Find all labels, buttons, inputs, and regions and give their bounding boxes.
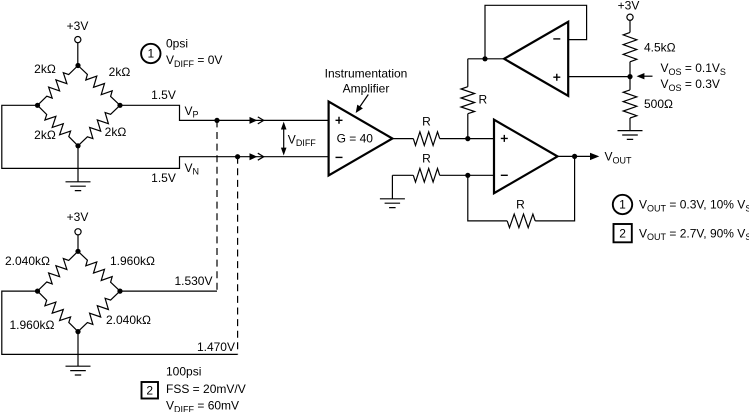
- resistor R2 2k ohm (bridge1 top-right): [78, 65, 130, 105]
- resistor 500 ohm: [623, 77, 673, 131]
- svg-text:100psi: 100psi: [166, 365, 201, 379]
- node: bridge2 top node: [75, 249, 80, 254]
- svg-text:Instrumentation: Instrumentation: [325, 67, 408, 81]
- wire VP: bridge1 right node to in-amp + input: [120, 105, 329, 120]
- resistor R3 2k ohm (bridge1 bottom-left): [34, 105, 78, 146]
- svg-text:1.470V: 1.470V: [197, 340, 235, 354]
- svg-text:FSS = 20mV/V: FSS = 20mV/V: [166, 382, 246, 396]
- svg-text:4.5kΩ: 4.5kΩ: [644, 41, 676, 55]
- node: bridge2 right node: [117, 289, 122, 294]
- svg-text:+3V: +3V: [618, 0, 640, 13]
- svg-text:1: 1: [147, 47, 154, 61]
- svg-text:2: 2: [146, 383, 153, 397]
- VDIFF measurement arrow: [281, 122, 287, 156]
- svg-text:1: 1: [619, 198, 626, 212]
- wire VN: bridge1 left node around bottom to in-amp - input: [2, 105, 329, 168]
- arrow on VP line: [250, 117, 264, 124]
- junction: divider tap node: [627, 74, 632, 79]
- svg-text:2: 2: [619, 226, 626, 240]
- resistor R1 2k ohm (bridge1 top-left): [34, 62, 78, 105]
- power terminal +3V (divider): [618, 0, 640, 32]
- op-amp U3 (buffer, points left): [504, 22, 568, 96]
- resistor 1.960k ohm (bridge2 bottom-left): [10, 291, 79, 332]
- svg-text:+3V: +3V: [67, 19, 89, 33]
- wire: ground to U2 - input with resistor R: [392, 169, 494, 183]
- svg-text:2kΩ: 2kΩ: [34, 128, 56, 142]
- node: bridge1 bottom node: [75, 143, 80, 148]
- svg-text:1.5V: 1.5V: [151, 88, 176, 102]
- op-amp U1 instrumentation amplifier: [329, 102, 393, 176]
- pointer arrow to U1: [356, 95, 369, 114]
- node: bridge2 bottom node: [75, 329, 80, 334]
- junction: U2 output node: [572, 154, 577, 159]
- feedback wire with resistor R (U2): [468, 156, 575, 227]
- resistor 2.040k ohm (bridge2 top-left): [5, 251, 78, 291]
- svg-text:2.040kΩ: 2.040kΩ: [106, 313, 151, 327]
- svg-text:R: R: [516, 197, 525, 211]
- power terminal +3V (bottom bridge): [67, 210, 89, 251]
- wire U3 + input to divider tap: [568, 76, 630, 78]
- arrow VOUT: [590, 153, 599, 160]
- legend marker circle 1 (VOUT 0.3V): [613, 195, 632, 214]
- svg-text:2kΩ: 2kΩ: [34, 62, 56, 76]
- label Instrumentation Amplifier: [325, 67, 408, 96]
- wire 1.470V output (around bottom): [2, 291, 238, 354]
- feedback loop wire (U3 output to - input): [485, 5, 587, 59]
- junction on VN line: [235, 154, 240, 159]
- wire U2 output: [558, 155, 591, 157]
- ground (top bridge): [66, 146, 91, 191]
- svg-text:1.5V: 1.5V: [151, 171, 176, 185]
- svg-text:G = 40: G = 40: [337, 132, 374, 146]
- resistor R4 2k ohm (bridge1 bottom-right): [78, 105, 126, 146]
- junction: + input node of U2: [465, 136, 470, 141]
- op-amp U2 (output stage): [494, 120, 558, 194]
- wire U3 output to vertical R: [468, 58, 504, 60]
- svg-text:R: R: [422, 115, 431, 129]
- ground (divider): [618, 131, 643, 140]
- dashed wire VP to 1.530V: [216, 120, 218, 291]
- wire: U1 output to U2 + input with resistor R: [392, 132, 494, 146]
- svg-text:2kΩ: 2kΩ: [109, 65, 131, 79]
- junction: - input node of U2: [465, 173, 470, 178]
- ground (bottom bridge): [66, 332, 91, 375]
- svg-text:2.040kΩ: 2.040kΩ: [5, 254, 50, 268]
- svg-text:Amplifier: Amplifier: [343, 82, 390, 96]
- junction on VP line: [214, 118, 219, 123]
- svg-text:1.960kΩ: 1.960kΩ: [10, 318, 55, 332]
- svg-text:1.960kΩ: 1.960kΩ: [110, 254, 155, 268]
- legend marker square 2 (100psi): [142, 382, 159, 399]
- wire 1.530V output: [120, 290, 217, 292]
- node: bridge1 right node: [117, 103, 122, 108]
- junction: U3 output node: [482, 56, 487, 61]
- node: bridge2 left node: [35, 289, 40, 294]
- svg-text:0psi: 0psi: [166, 37, 188, 51]
- resistor 4.5k ohm: [623, 32, 675, 76]
- svg-text:R: R: [422, 152, 431, 166]
- pointer arrow to tap node: [637, 73, 653, 79]
- legend marker circle 1 (0psi): [141, 44, 160, 63]
- ground (U2 - input branch): [380, 175, 405, 207]
- dashed wire VN to 1.470V: [237, 157, 239, 355]
- resistor R vertical (buffer output to + node): [461, 59, 475, 139]
- legend marker square 2 (VOUT 2.7V): [614, 224, 632, 242]
- svg-text:500Ω: 500Ω: [644, 97, 673, 111]
- resistor 1.960k ohm (bridge2 top-right): [78, 251, 155, 291]
- svg-text:+3V: +3V: [67, 210, 89, 224]
- power terminal +3V (top bridge): [67, 19, 89, 65]
- arrow on VN line: [250, 153, 264, 160]
- svg-text:1.530V: 1.530V: [174, 274, 212, 288]
- svg-text:2kΩ: 2kΩ: [105, 125, 127, 139]
- node: bridge1 left node: [35, 103, 40, 108]
- resistor 2.040k ohm (bridge2 bottom-right): [78, 291, 151, 332]
- svg-text:R: R: [479, 93, 488, 107]
- node: bridge1 top node: [75, 63, 80, 68]
